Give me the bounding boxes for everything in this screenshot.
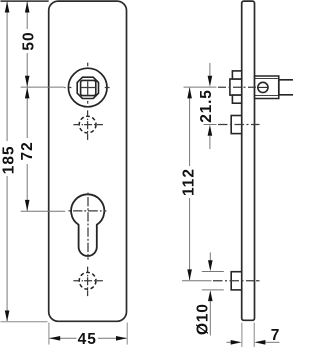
dimension dia10 arrow up (tip at bottom ext) (208, 290, 213, 301)
dimension 112 line (189, 88, 191, 166)
dimension 72 arrow up (25, 87, 30, 98)
side nut top flange (232, 71, 241, 79)
dimension 112 arrow up (187, 87, 192, 98)
side spindle block chamfer line top (255, 78, 279, 80)
extension line top (y=1) (1, 0, 49, 2)
side nut bottom flange (232, 95, 241, 103)
dimension 45 arrow left (49, 336, 60, 341)
extension line diameter top (202, 271, 224, 273)
plate front view outline (49, 1, 127, 321)
svg-text:7: 7 (271, 327, 280, 344)
dimension 112 arrow down (187, 269, 192, 280)
side spindle set screw line (258, 86, 269, 88)
extension line bottom of 185 (1, 321, 48, 323)
cylinder centerline horizontal (69, 210, 107, 212)
dimension 72 arrow down (25, 200, 30, 211)
side spindle block chamfer line bottom (255, 95, 279, 97)
extension line bottom-right of 45 (126, 323, 128, 345)
lower screw hole centerline vertical (87, 267, 89, 297)
dimension 7 arrow right (tip at left ext) (231, 340, 242, 345)
spindle square hole (81, 80, 96, 95)
dimension 21.5 upper tail (209, 63, 211, 76)
lower screw hole centerline horizontal (73, 280, 103, 282)
dimension 50 arrow up (25, 2, 30, 13)
lower screw hole dashed circle (79, 272, 96, 289)
dimension 185 arrow down (5, 311, 10, 322)
spindle centerline vertical (87, 63, 89, 104)
dimension dia10 upper tail (209, 252, 211, 261)
dimension 7 left tail (227, 341, 232, 343)
extension line lower boss center (182, 280, 212, 282)
dimension 7 right tail (265, 341, 279, 343)
upper screw hole dashed circle (79, 116, 96, 133)
extension line upper boss center (204, 124, 217, 126)
svg-text:185: 185 (1, 145, 18, 174)
extension line 7 left (241, 323, 243, 347)
svg-text:112: 112 (180, 168, 197, 196)
dimension dia10 arrow down (tip at top ext) (208, 260, 213, 271)
dimension 72 line (26, 88, 28, 139)
side nut main block (230, 79, 242, 95)
dimension 21.5 lower tail (209, 136, 211, 149)
svg-text:21.5: 21.5 (198, 89, 215, 122)
dimension 21.5 arrow down (tip at spindle axis) (208, 76, 213, 87)
dimension 45 line (50, 337, 77, 339)
side spindle end piece (279, 80, 294, 95)
extension line cylinder center left (21, 210, 65, 212)
side lower fixing boss (231, 272, 242, 290)
upper boss centerline (218, 124, 260, 126)
extension line 7 right (253, 323, 255, 347)
spindle rose circle (68, 68, 107, 107)
side view bar (242, 1, 255, 320)
svg-text:Ø10: Ø10 (194, 303, 211, 335)
euro cylinder hole (71, 194, 104, 256)
dimension 7 arrow left (tip at right ext) (254, 340, 265, 345)
extension line spindle center (side, to dims) (184, 86, 217, 88)
dimension 50 line (26, 2, 28, 29)
dimension 185 arrow up (5, 2, 10, 13)
upper screw hole centerline vertical (87, 110, 89, 139)
upper screw hole centerline horizontal (73, 124, 103, 126)
side spindle set screw circle (258, 82, 268, 92)
lower boss centerline (213, 280, 260, 282)
spindle axis centerline (side) (218, 86, 256, 88)
dimension 50 arrow down (25, 76, 30, 87)
side spindle big block (255, 76, 279, 99)
extension line diameter bottom (202, 289, 224, 291)
extension line spindle center left (21, 86, 64, 88)
dimension 21.5 arrow up (tip at boss axis) (208, 125, 213, 136)
spindle boss octagon (77, 77, 98, 98)
cylinder centerline vertical (87, 193, 89, 260)
spindle centerline horizontal (64, 87, 109, 89)
svg-text:45: 45 (78, 331, 97, 348)
side upper fixing boss (231, 116, 242, 134)
extension line bottom-left of 45 (48, 323, 50, 345)
svg-text:50: 50 (21, 31, 38, 50)
dimension 45 arrow right (116, 336, 127, 341)
dimension dia10 lower tail (209, 301, 211, 336)
svg-text:72: 72 (19, 141, 36, 160)
dimension 185 line (6, 2, 8, 141)
